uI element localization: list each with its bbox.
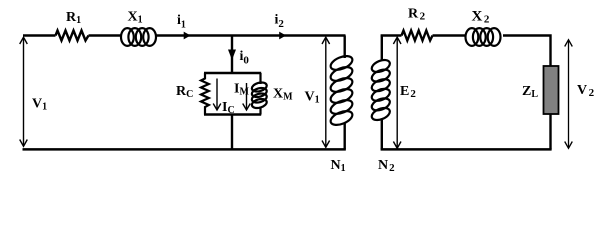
winding N2 [370, 36, 395, 175]
resistor RC [176, 73, 209, 115]
wire shunt vertical top (node to box) [231, 36, 233, 74]
current arrow i2 [275, 13, 287, 40]
current arrow IM [234, 82, 250, 111]
wire shunt vertical bottom (box to bottom wire) [231, 115, 233, 150]
wire top-left segment [23, 34, 56, 36]
wire R2 to X2 [433, 34, 467, 36]
wire X2 to top-right corner [503, 36, 551, 67]
wire box bottom rail [204, 113, 261, 115]
resistor R1 [56, 10, 89, 41]
wire bottom-right rail [381, 148, 552, 151]
voltage arrow E2 [393, 37, 416, 148]
resistor R2 [402, 7, 433, 41]
source arrow V1 [20, 37, 47, 146]
inductor X1 [121, 10, 156, 46]
wire bottom-left rail [23, 148, 346, 151]
voltage arrow V1 (across N1) [305, 37, 330, 147]
current arrow i0 [228, 49, 249, 67]
wire between R1 and X1 [89, 34, 122, 36]
inductor XM [251, 73, 293, 115]
wire box top rail [204, 72, 261, 74]
inductor X2 [466, 9, 501, 46]
wire ZL to bottom-right corner [549, 114, 551, 150]
voltage arrow V2 [565, 40, 595, 149]
wire N2 top to R2 [381, 34, 402, 36]
current arrow IC [213, 79, 234, 117]
load ZL [522, 66, 559, 114]
winding N1 [329, 36, 355, 175]
current arrow i1 [177, 13, 191, 39]
wire X1 to N1 top [156, 34, 346, 36]
